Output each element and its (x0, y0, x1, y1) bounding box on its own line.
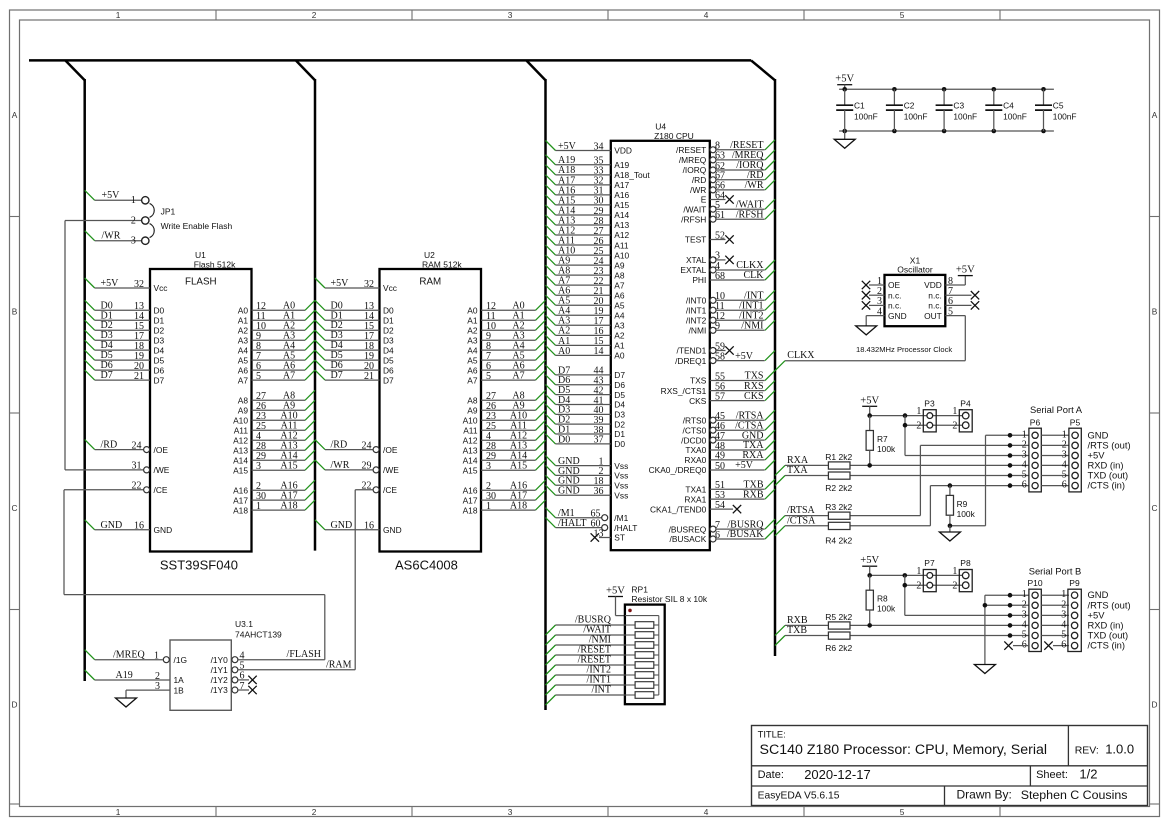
svg-text:Resistor SIL 8 x 10k: Resistor SIL 8 x 10k (631, 594, 707, 604)
svg-text:/1G: /1G (174, 655, 188, 665)
svg-text:58: 58 (715, 351, 725, 362)
U4 right pin 47 /DCD0 net GND (710, 430, 775, 443)
U4 left pin 19 net A4 (546, 305, 611, 317)
svg-text:1.0.0: 1.0.0 (1105, 742, 1134, 757)
svg-text:D3: D3 (383, 335, 394, 345)
svg-text:+5V: +5V (956, 265, 975, 276)
svg-text:Date:: Date: (758, 769, 784, 781)
U2 right pin 25 net A11 (481, 420, 546, 432)
U1 right pin 29 net A14 (252, 450, 316, 462)
svg-text:/CTS (in): /CTS (in) (1088, 480, 1126, 491)
U2 right pin 29 net A14 (481, 450, 546, 462)
svg-text:C4: C4 (1003, 101, 1014, 111)
svg-text:3: 3 (486, 461, 491, 472)
svg-text:6: 6 (1062, 480, 1067, 491)
svg-text:4: 4 (877, 306, 882, 317)
svg-text:D: D (12, 700, 18, 710)
U1 right pin 28 net A13 (252, 440, 316, 452)
wire /WR to JP1 pin 3 (85, 231, 142, 242)
wire net RXB (through R5) (775, 615, 1029, 635)
header P10 (1022, 578, 1043, 651)
svg-text:/WR: /WR (690, 185, 706, 195)
svg-text:/MREQ: /MREQ (679, 155, 707, 165)
svg-text:50: 50 (715, 461, 725, 472)
IC U3.1 74AHCT139 body (170, 619, 282, 710)
svg-text:/1Y3: /1Y3 (211, 685, 229, 695)
svg-text:5: 5 (948, 306, 953, 317)
svg-text:+5V: +5V (735, 351, 754, 362)
svg-text:/WE: /WE (154, 465, 170, 475)
wire net /RTSA (through R3 to P6 pin2) (775, 443, 1029, 525)
svg-text:D: D (1152, 700, 1158, 710)
U1 left pin 24 net /RD (85, 440, 150, 453)
U1 left pin 15 net D2 (85, 320, 150, 332)
svg-text:14: 14 (594, 346, 604, 357)
U4 left pin 17 net A3 (546, 315, 611, 327)
svg-text:C: C (12, 503, 18, 513)
U1 left pin 32 net +5V (85, 278, 150, 290)
U1 right pin 23 net A10 (252, 410, 316, 422)
svg-text:A14: A14 (233, 455, 248, 465)
svg-text:A4: A4 (614, 310, 625, 320)
svg-text:Vcc: Vcc (383, 283, 397, 293)
U2 left pin 17 net D3 (315, 330, 380, 342)
header P8 (952, 558, 972, 592)
svg-text:A12: A12 (233, 435, 248, 445)
svg-text:/HALT: /HALT (614, 523, 637, 533)
U4 right pin 54 CKA1_/TEND0 no-connect (710, 500, 741, 513)
U1 right pin 10 net A2 (252, 320, 316, 332)
svg-text:100nF: 100nF (953, 111, 977, 121)
svg-text:/INT2: /INT2 (686, 315, 707, 325)
U4 right pin 58 /DREQ1 net +5V (710, 351, 775, 364)
svg-text:A15: A15 (510, 460, 527, 471)
svg-text:SST39SF040: SST39SF040 (160, 558, 238, 573)
X1 right pin 8 VDD to +5V (945, 276, 965, 287)
U4 right pin 49 RXA0 net RXA (710, 450, 775, 462)
U1 right pin 12 net A0 (252, 300, 316, 312)
svg-text:A19: A19 (614, 160, 629, 170)
svg-text:A4: A4 (238, 345, 249, 355)
svg-text:Stephen C Cousins: Stephen C Cousins (1021, 788, 1128, 802)
X1 right pin 6 no-connect (945, 296, 979, 309)
U2 right pin 30 net A17 (481, 490, 546, 502)
title block (752, 726, 1148, 806)
svg-text:R4 2k2: R4 2k2 (825, 536, 852, 546)
bus: top horizontal power/address rail (29, 59, 751, 62)
svg-text:TXA1: TXA1 (685, 484, 706, 494)
svg-text:A18: A18 (510, 500, 527, 511)
U2 right pin 28 net A13 (481, 440, 546, 452)
svg-text:/CE: /CE (383, 485, 397, 495)
svg-text:+5V: +5V (102, 190, 121, 201)
svg-text:C1: C1 (854, 101, 865, 111)
U2 right pin 6 net A6 (481, 360, 546, 372)
X1 left pin 4 GND (866, 306, 884, 326)
svg-text:5: 5 (256, 371, 261, 382)
svg-text:D5: D5 (154, 355, 165, 365)
svg-text:Vss: Vss (614, 490, 628, 500)
capacitor C3 100nF (936, 89, 978, 131)
svg-text:/HALT: /HALT (558, 518, 587, 529)
svg-text:P7: P7 (924, 558, 935, 568)
svg-text:EXTAL: EXTAL (680, 265, 706, 275)
svg-text:100k: 100k (957, 509, 976, 519)
svg-text:Write Enable Flash: Write Enable Flash (161, 221, 233, 231)
svg-text:Vss: Vss (614, 461, 628, 471)
svg-text:/BUSAK: /BUSAK (727, 529, 764, 540)
svg-text:Vss: Vss (614, 481, 628, 491)
svg-text:OE: OE (888, 280, 901, 290)
wire P7 pin2 to P10 pin3 (+5V) (903, 575, 1029, 617)
svg-text:RAM 512k: RAM 512k (422, 259, 462, 269)
svg-text:B: B (12, 307, 18, 317)
no-connect X at P10 pin6 (1004, 641, 1029, 649)
svg-text:/RD: /RD (331, 440, 348, 451)
svg-text:CLKX: CLKX (787, 350, 815, 361)
svg-text:/RTS0: /RTS0 (683, 415, 707, 425)
U4 right pin 55 TXS net TXS (710, 371, 775, 383)
svg-text:A12: A12 (463, 435, 478, 445)
power symbol +5V (serial A) (860, 395, 879, 415)
header P4 (952, 398, 972, 432)
svg-text:/WE: /WE (383, 465, 399, 475)
wire net TXB (through R6) (775, 625, 1029, 645)
svg-text:3: 3 (155, 681, 160, 692)
wire GND net (P6 pin1, R9 bottom) (948, 433, 1029, 532)
wire net /WAIT to RP1 pin 3 (546, 625, 625, 645)
wire net RXA (through R1) (775, 455, 1029, 475)
U2 right pin 1 net A18 (481, 500, 546, 512)
U4 right pin 67 /RD net /RD (710, 170, 775, 183)
svg-text:/DREQ1: /DREQ1 (675, 356, 707, 366)
U4 left pin 27 net A12 (546, 225, 611, 237)
svg-text:1B: 1B (174, 685, 185, 695)
svg-text:A7: A7 (238, 375, 249, 385)
svg-text:/CTSA: /CTSA (787, 515, 816, 526)
svg-text:U2: U2 (424, 250, 435, 260)
U1 right pin 30 net A17 (252, 490, 316, 502)
svg-text:A2: A2 (614, 331, 625, 341)
U4 right pin 52 TEST no-connect (710, 230, 734, 243)
svg-text:/RAM: /RAM (326, 659, 352, 670)
svg-text:D0: D0 (614, 439, 625, 449)
svg-text:/OE: /OE (154, 445, 169, 455)
U4 left pin 37 net D0 (546, 434, 611, 446)
U4 left pin 28 net A13 (546, 215, 611, 227)
resistor R7 100k (866, 416, 896, 466)
svg-text:EasyEDA V5.6.15: EasyEDA V5.6.15 (758, 790, 840, 801)
U4 left pin 13 ST no-connect (591, 528, 611, 541)
svg-text:2020-12-17: 2020-12-17 (804, 767, 871, 782)
ground (U3 1B) (116, 698, 137, 707)
U4 left pin 16 net A2 (546, 325, 611, 337)
wires P6 to P5 (1041, 435, 1069, 485)
svg-text:D4: D4 (383, 345, 394, 355)
svg-text:A14: A14 (614, 210, 629, 220)
U1 left pin 22 (132, 481, 150, 493)
U2 right pin 27 net A8 (481, 390, 546, 402)
svg-text:A0: A0 (467, 306, 478, 316)
svg-text:A6: A6 (238, 365, 249, 375)
svg-text:4: 4 (704, 10, 709, 20)
svg-text:A12: A12 (614, 230, 629, 240)
svg-text:Sheet:: Sheet: (1036, 769, 1068, 781)
svg-text:6: 6 (1061, 640, 1066, 651)
ground (serial B) (974, 665, 995, 674)
svg-text:68: 68 (715, 271, 725, 282)
svg-text:24: 24 (132, 440, 142, 451)
svg-text:2: 2 (952, 580, 957, 591)
svg-text:D7: D7 (614, 370, 625, 380)
U2 left pin 24 net /RD (315, 440, 379, 453)
U4 right pin 53 RXA1 net RXB (710, 489, 775, 501)
svg-text:A1: A1 (614, 341, 625, 351)
resistor R1 2k2 (825, 452, 852, 469)
U4 left pin 29 net A14 (546, 205, 611, 217)
svg-text:/DCD0: /DCD0 (681, 435, 706, 445)
svg-text:A15: A15 (233, 465, 248, 475)
svg-text:/CTS0: /CTS0 (683, 425, 707, 435)
svg-text:A16: A16 (463, 485, 478, 495)
svg-text:R6 2k2: R6 2k2 (825, 643, 852, 653)
svg-text:A6: A6 (614, 290, 625, 300)
U4 left pin 25 net A10 (546, 245, 611, 257)
svg-text:1: 1 (916, 406, 921, 417)
U2 right pin 11 net A1 (481, 310, 546, 322)
wire net TXA (through R2) (775, 465, 1029, 485)
svg-text:U1: U1 (195, 250, 206, 260)
svg-text:D7: D7 (101, 370, 113, 381)
U2 right pin 23 net A10 (481, 410, 546, 422)
svg-text:/WR: /WR (745, 180, 764, 191)
IC U4 Z180 CPU body (611, 122, 710, 551)
U4 left pin 39 net D2 (546, 414, 611, 426)
svg-text:A8: A8 (238, 396, 249, 406)
svg-text:5: 5 (900, 807, 905, 817)
capacitor C1 100nF (836, 89, 878, 131)
U4 left pin 42 net D5 (546, 385, 611, 397)
U2 right pin 8 net A4 (481, 340, 546, 352)
svg-text:TEST: TEST (685, 235, 706, 245)
U4 left pin 35 net A19 (546, 155, 611, 167)
U4 right pin 64 E no-connect (710, 190, 734, 203)
svg-text:/1Y0: /1Y0 (211, 655, 229, 665)
U4 right pin 3 XTAL no-connect (710, 251, 734, 264)
resistor network RP1 Resistor SIL 8 x 10k (625, 585, 708, 705)
svg-text:CKS: CKS (689, 396, 707, 406)
svg-text:/NMI: /NMI (741, 321, 763, 332)
svg-text:Flash 512k: Flash 512k (194, 259, 236, 269)
wire net /CTSA (through R4 to P6 pin6) (775, 483, 1029, 535)
svg-text:A8: A8 (614, 270, 625, 280)
header P5 (1062, 417, 1082, 492)
U1 right pin 11 net A1 (252, 310, 316, 322)
U1 left pin 31 (132, 461, 150, 473)
svg-text:D0: D0 (558, 434, 570, 445)
IC U1 FLASH SST39SF040 body (150, 250, 252, 573)
U4 right pin 4 EXTAL net CLKX (710, 260, 775, 273)
svg-text:RAM: RAM (419, 277, 441, 288)
no-connect X between P10 and P9 pin6 (1044, 641, 1069, 649)
svg-text:D1: D1 (614, 429, 625, 439)
svg-text:A11: A11 (463, 425, 478, 435)
svg-text:A9: A9 (614, 260, 625, 270)
X1 left pin 1 no-connect (862, 276, 885, 289)
U2 left pin 19 net D5 (315, 350, 380, 362)
svg-text:CKA1_/TEND0: CKA1_/TEND0 (650, 504, 707, 514)
svg-text:3: 3 (508, 10, 513, 20)
svg-text:21: 21 (364, 371, 374, 382)
svg-text:R5 2k2: R5 2k2 (825, 612, 852, 622)
svg-text:R8: R8 (877, 593, 888, 603)
label Serial Port B and P9 pin functions (1029, 565, 1131, 650)
svg-text:C3: C3 (953, 101, 964, 111)
wire +5V rail to P7 and P8 pin1 (867, 573, 962, 578)
svg-text:A3: A3 (238, 335, 249, 345)
resistor R2 2k2 (825, 472, 852, 493)
X1 right pin 7 no-connect (945, 286, 979, 299)
svg-text:74AHCT139: 74AHCT139 (235, 630, 282, 640)
svg-text:+5V: +5V (860, 395, 879, 406)
power symbol +5V (X1) (956, 265, 975, 276)
svg-text:/M1: /M1 (614, 513, 628, 523)
svg-text:FLASH: FLASH (185, 277, 217, 288)
wire +5V to JP1 pin 1 (85, 190, 142, 201)
jumper JP1 Write Enable Flash (131, 195, 233, 246)
U2 left pin 13 net D0 (315, 300, 380, 312)
svg-text:GND: GND (331, 520, 353, 531)
svg-text:OUT: OUT (924, 311, 942, 321)
U4 right pin 63 /MREQ net /MREQ (710, 150, 775, 163)
svg-text:A13: A13 (614, 220, 629, 230)
svg-text:/RESET: /RESET (676, 145, 706, 155)
U4 left pin 15 net A1 (546, 335, 611, 347)
U4 right pin 56 RXS_/CTS1 net RXS (710, 381, 775, 393)
U2 left pin 20 net D6 (315, 360, 380, 372)
svg-text:1: 1 (952, 406, 957, 417)
svg-text:n.c.: n.c. (928, 301, 942, 311)
svg-text:PHI: PHI (692, 275, 706, 285)
svg-text:C: C (1152, 503, 1158, 513)
svg-text:Z180 CPU: Z180 CPU (654, 131, 694, 141)
svg-text:P8: P8 (960, 558, 971, 568)
svg-text:2: 2 (916, 580, 921, 591)
svg-text:U3.1: U3.1 (235, 619, 253, 629)
svg-text:5: 5 (900, 10, 905, 20)
svg-text:54: 54 (715, 500, 725, 511)
U1 right pin 25 net A11 (252, 420, 316, 432)
resistor R5 2k2 (825, 612, 852, 629)
svg-text:57: 57 (715, 391, 725, 402)
svg-text:A4: A4 (467, 345, 478, 355)
resistor R4 2k2 (825, 522, 852, 545)
svg-text:+5V: +5V (835, 74, 854, 85)
U1 left pin 21 net D7 (85, 370, 150, 382)
svg-text:A10: A10 (614, 250, 629, 260)
svg-text:/WR: /WR (102, 231, 121, 242)
svg-text:TXA0: TXA0 (685, 445, 706, 455)
svg-text:7: 7 (240, 681, 245, 692)
svg-text:RP1: RP1 (631, 585, 648, 595)
svg-text:/RD: /RD (692, 175, 706, 185)
svg-text:A5: A5 (614, 300, 625, 310)
svg-text:RXA0: RXA0 (684, 455, 706, 465)
svg-text:+5V: +5V (331, 278, 350, 289)
resistor R8 100k (866, 575, 896, 625)
svg-text:D1: D1 (154, 315, 165, 325)
wire net /INT to RP1 pin 9 (546, 685, 625, 705)
svg-text:100k: 100k (877, 444, 896, 454)
U1 right pin 3 net A15 (252, 460, 316, 472)
wire net /INT1 to RP1 pin 8 (546, 675, 625, 695)
svg-text:XTAL: XTAL (686, 255, 707, 265)
U1 left pin 20 net D6 (85, 360, 150, 372)
X1 right pin 5 OUT clock wire net CLKX (775, 306, 965, 370)
wire net /FLASH (U1 /CE to U3 /1Y0) (64, 490, 325, 660)
svg-text:Serial Port B: Serial Port B (1029, 565, 1082, 576)
U4 left pin 38 net D1 (546, 424, 611, 436)
svg-text:A16: A16 (614, 190, 629, 200)
svg-text:A7: A7 (512, 370, 524, 381)
U2 left pin 16 net GND (315, 520, 380, 532)
U4 left pin 26 net A11 (546, 235, 611, 247)
X1 left pin 2 no-connect (862, 286, 885, 299)
svg-text:P9: P9 (1069, 578, 1080, 588)
U1 left pin 14 net D1 (85, 310, 150, 322)
U4 left pin 40 net D3 (546, 404, 611, 416)
U1 right pin 7 net A5 (252, 350, 316, 362)
svg-text:13: 13 (594, 528, 604, 539)
U3 left pin 3 1B to ground (126, 681, 170, 698)
svg-text:1: 1 (952, 566, 957, 577)
svg-text:34: 34 (594, 141, 604, 152)
svg-text:3: 3 (256, 461, 261, 472)
U4 left pin 60 net /HALT (546, 518, 608, 531)
svg-text:/CE: /CE (154, 485, 168, 495)
U1 left pin 17 net D3 (85, 330, 150, 342)
svg-text:1A: 1A (174, 675, 185, 685)
svg-text:A7: A7 (467, 375, 478, 385)
svg-text:VDD: VDD (924, 280, 942, 290)
svg-text:/BUSACK: /BUSACK (670, 534, 707, 544)
svg-text:1: 1 (916, 566, 921, 577)
U4 right pin 50 CKA0_/DREQ0 net +5V (710, 460, 775, 472)
svg-text:P4: P4 (960, 398, 971, 408)
svg-text:A: A (12, 110, 18, 120)
U2 left pin 18 net D4 (315, 340, 380, 352)
svg-text:TXA: TXA (787, 465, 808, 476)
svg-text:TXB: TXB (787, 625, 807, 636)
U2 right pin 10 net A2 (481, 320, 546, 332)
wire net /RESET to RP1 pin 5 (546, 645, 625, 665)
svg-text:/WAIT: /WAIT (683, 204, 706, 214)
svg-text:4: 4 (704, 807, 709, 817)
oscillator X1 body (885, 256, 946, 326)
X1 left pin 3 no-connect (862, 296, 885, 309)
bus A vertical (left of U1) (65, 60, 84, 681)
svg-text:A10: A10 (233, 415, 248, 425)
svg-text:D7: D7 (154, 375, 165, 385)
U4 right pin 11 /INT1 net /INT1 (710, 300, 775, 313)
svg-text:n.c.: n.c. (888, 301, 902, 311)
svg-text:100nF: 100nF (904, 111, 928, 121)
svg-text:32: 32 (364, 279, 374, 290)
U2 right pin 7 net A5 (481, 350, 546, 362)
wire GND rail (capacitor bank bottom) (839, 129, 1054, 134)
svg-text:16: 16 (134, 521, 144, 532)
U4 left pin 31 net A16 (546, 185, 611, 197)
